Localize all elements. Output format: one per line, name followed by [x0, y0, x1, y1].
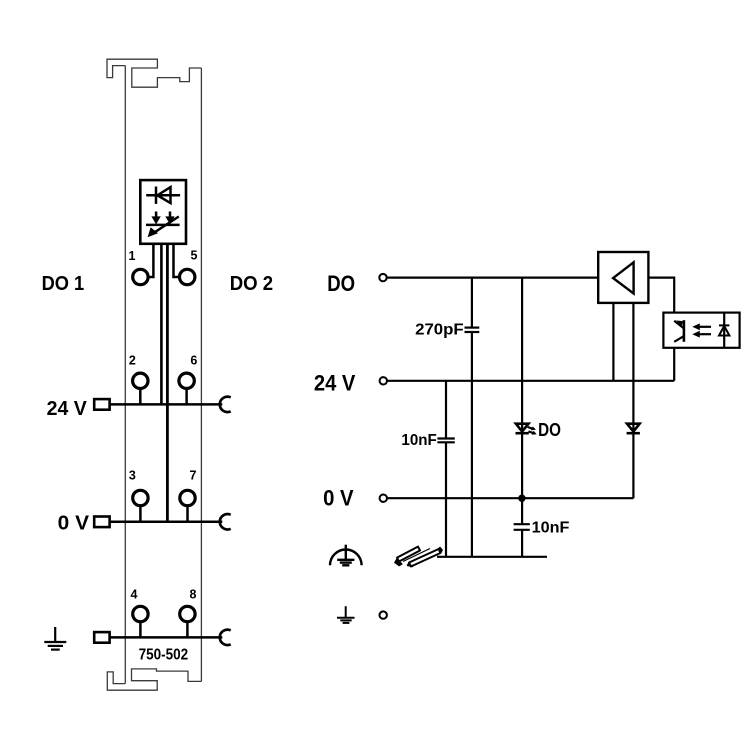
svg-text:8: 8 — [190, 588, 197, 602]
svg-text:4: 4 — [131, 588, 138, 602]
svg-text:DO 1: DO 1 — [42, 273, 85, 295]
svg-text:10nF: 10nF — [401, 432, 437, 449]
svg-text:3: 3 — [129, 468, 136, 482]
svg-text:2: 2 — [129, 353, 136, 367]
svg-text:750-502: 750-502 — [139, 647, 189, 664]
svg-text:0 V: 0 V — [58, 513, 90, 535]
svg-text:DO: DO — [327, 271, 355, 296]
svg-text:7: 7 — [190, 468, 197, 482]
svg-text:1: 1 — [129, 249, 136, 263]
svg-text:0 V: 0 V — [323, 486, 354, 511]
svg-text:DO: DO — [538, 420, 561, 440]
svg-text:DO 2: DO 2 — [230, 273, 273, 295]
svg-text:5: 5 — [191, 249, 198, 263]
svg-text:24 V: 24 V — [47, 398, 88, 420]
svg-text:10nF: 10nF — [532, 519, 570, 536]
svg-text:6: 6 — [190, 353, 197, 367]
svg-text:270pF: 270pF — [415, 321, 464, 338]
svg-text:24 V: 24 V — [314, 370, 356, 395]
